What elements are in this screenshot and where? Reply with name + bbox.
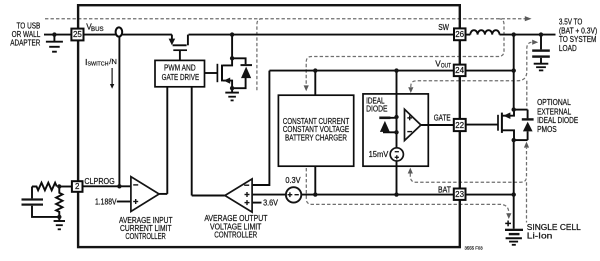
svg-text:Li-Ion: Li-Ion	[527, 232, 553, 241]
svg-text:/N: /N	[109, 57, 117, 66]
svg-text:TO SYSTEM: TO SYSTEM	[559, 35, 597, 44]
svg-text:ADAPTER: ADAPTER	[10, 38, 40, 47]
svg-text:3555 F03: 3555 F03	[465, 246, 484, 251]
svg-text:22: 22	[455, 121, 464, 130]
svg-text:BUS: BUS	[91, 27, 104, 33]
svg-text:(BAT + 0.3V): (BAT + 0.3V)	[559, 26, 598, 35]
svg-text:GATE: GATE	[434, 114, 451, 123]
svg-text:OPTIONAL: OPTIONAL	[537, 98, 571, 107]
svg-text:23: 23	[455, 190, 464, 199]
svg-text:CLPROG: CLPROG	[84, 177, 114, 186]
svg-text:2: 2	[75, 182, 80, 191]
svg-text:CONTROLLER: CONTROLLER	[214, 230, 257, 239]
svg-text:OUT: OUT	[441, 64, 451, 70]
svg-text:PMOS: PMOS	[537, 125, 557, 134]
svg-text:CONTROLLER: CONTROLLER	[125, 232, 166, 241]
svg-text:BATTERY CHARGER: BATTERY CHARGER	[285, 132, 347, 142]
svg-text:SWITCH: SWITCH	[88, 62, 109, 68]
svg-text:3.6V: 3.6V	[263, 198, 278, 207]
svg-text:15mV: 15mV	[369, 150, 389, 159]
svg-text:3.5V TO: 3.5V TO	[559, 18, 583, 27]
svg-text:1.188V: 1.188V	[95, 197, 117, 206]
svg-text:LOAD: LOAD	[559, 44, 577, 53]
svg-text:26: 26	[455, 30, 464, 39]
svg-text:24: 24	[455, 66, 464, 75]
svg-text:25: 25	[73, 30, 82, 39]
svg-text:SW: SW	[438, 23, 449, 32]
svg-text:DIODE: DIODE	[366, 104, 388, 113]
svg-text:BAT: BAT	[438, 185, 451, 194]
svg-text:GATE DRIVE: GATE DRIVE	[162, 72, 200, 82]
svg-text:0.3V: 0.3V	[285, 176, 301, 185]
svg-text:IDEAL DIODE: IDEAL DIODE	[537, 116, 578, 125]
